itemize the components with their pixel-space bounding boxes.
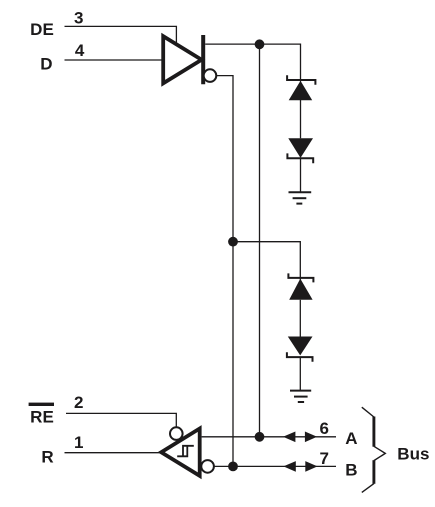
wire D: [65, 59, 164, 61]
svg-text:Bus: Bus: [397, 445, 429, 464]
svg-text:R: R: [41, 447, 53, 466]
wire DE: [65, 26, 177, 42]
ground 1: [289, 192, 312, 203]
wire D4-gnd: [299, 357, 301, 390]
wire RE: [66, 413, 176, 427]
svg-text:A: A: [345, 429, 357, 448]
ground 2: [290, 391, 311, 402]
wire B tap: [233, 242, 300, 280]
svg-text:D: D: [40, 55, 52, 74]
wire A to pin6: [202, 436, 336, 438]
receiver enable bubble: [170, 427, 183, 440]
node A top junction: [255, 39, 265, 49]
svg-text:DE: DE: [30, 20, 54, 39]
svg-text:4: 4: [75, 41, 85, 60]
wire B to pin7: [214, 465, 336, 467]
node A bottom junction: [255, 432, 265, 442]
wire D3-D4: [299, 300, 301, 337]
svg-text:RE: RE: [30, 408, 54, 427]
node B bottom junction: [228, 462, 238, 472]
receiver U2: [161, 429, 200, 476]
node B mid junction: [228, 237, 238, 247]
receiver inverting bubble: [201, 460, 214, 473]
wire A vertical: [259, 44, 261, 437]
label RE (overbar): [29, 403, 54, 427]
zener D2: [287, 138, 313, 163]
svg-text:1: 1: [74, 433, 83, 452]
driver output bar: [201, 35, 205, 84]
svg-text:B: B: [345, 461, 357, 480]
bus arrows A: [283, 432, 317, 443]
svg-text:3: 3: [74, 9, 83, 28]
zener D3: [288, 273, 313, 299]
zener D1: [287, 75, 315, 100]
wire driver out B: [216, 76, 233, 467]
svg-text:2: 2: [74, 393, 83, 412]
driver inverting bubble: [204, 69, 217, 82]
wire D2-gnd: [300, 158, 302, 192]
wire D1-D2: [300, 100, 302, 138]
zener D4: [287, 337, 313, 362]
svg-text:6: 6: [319, 419, 328, 438]
svg-text:7: 7: [319, 449, 328, 468]
wire driver out A: [205, 44, 300, 81]
bus arrows B: [283, 461, 317, 472]
bus brace: [362, 407, 386, 492]
wire R: [65, 452, 162, 454]
hysteresis symbol: [177, 446, 194, 457]
driver U1: [163, 36, 201, 83]
